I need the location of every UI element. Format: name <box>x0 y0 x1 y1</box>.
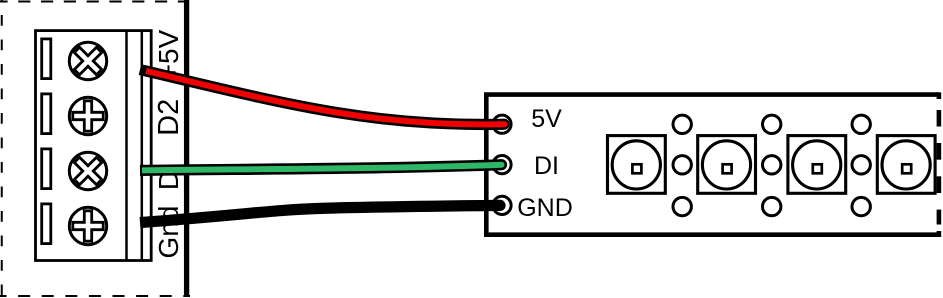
screw 4 (+) <box>69 207 106 244</box>
via column 1 <box>673 115 691 216</box>
LED strip border <box>486 92 939 237</box>
svg-text:5V: 5V <box>531 105 562 133</box>
slot 1 <box>42 39 51 79</box>
LED 4 <box>877 136 935 194</box>
slot 3 <box>42 149 51 189</box>
via column 2 <box>763 115 781 216</box>
wire red (5V) <box>140 70 510 130</box>
slot 2 <box>42 94 51 134</box>
LED 3 <box>788 136 846 194</box>
board right edge (solid) <box>184 0 189 296</box>
wire black (GND) <box>140 200 506 223</box>
via column 3 <box>852 115 870 216</box>
svg-text:D2: D2 <box>153 99 185 136</box>
LED 1 <box>608 136 666 194</box>
svg-text:DI: DI <box>534 152 559 180</box>
screw 2 (+) <box>69 97 106 134</box>
svg-text:Gnd: Gnd <box>153 206 184 259</box>
pad 5V <box>493 115 511 133</box>
terminal block divider line 1 <box>125 30 128 261</box>
svg-text:GND: GND <box>517 194 573 222</box>
terminal block body <box>36 31 152 261</box>
screw 1 (X) <box>66 39 110 83</box>
terminal block divider line 2 <box>141 30 144 261</box>
LED 2 <box>698 136 756 194</box>
board outline left (dashed) <box>0 0 190 296</box>
screw 3 (X) <box>66 149 110 193</box>
slot 4 <box>42 204 51 244</box>
pad GND <box>493 196 511 214</box>
wire green (DI) <box>140 159 507 170</box>
pad DI <box>493 156 511 174</box>
